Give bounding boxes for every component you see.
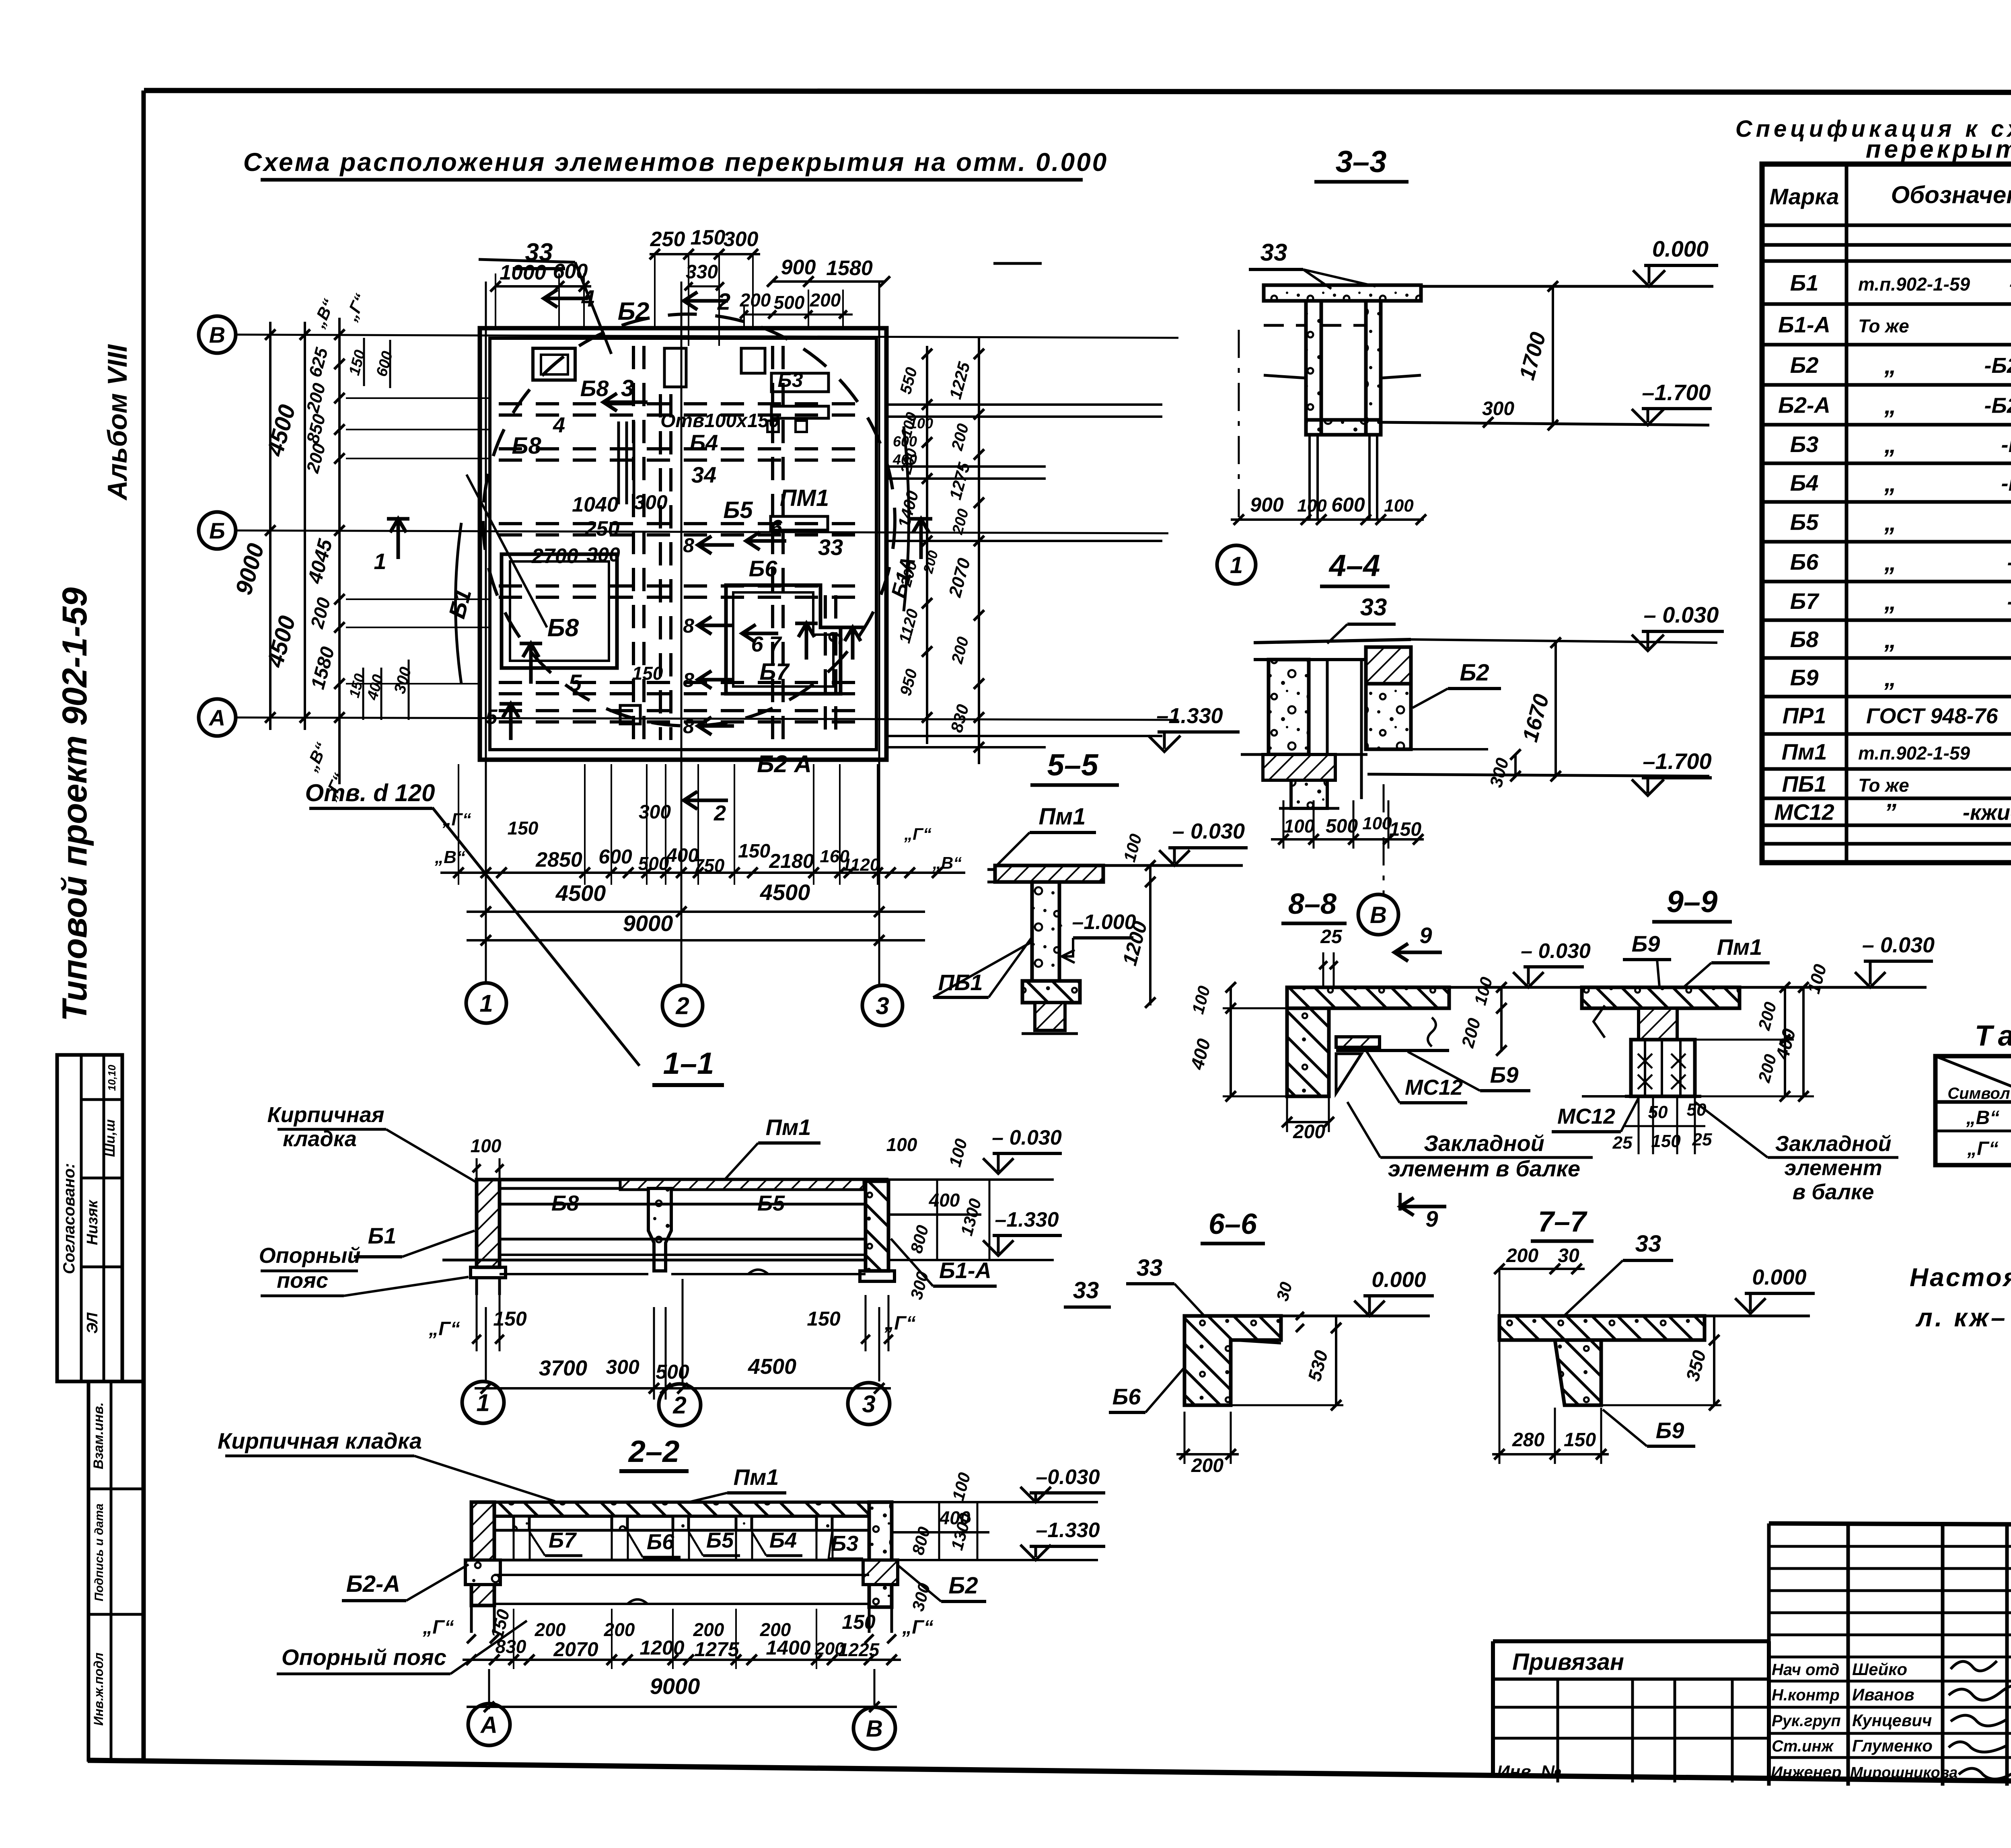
section 2-2 Б2-А callout <box>342 1564 469 1601</box>
section 7-7 label <box>1531 1206 1594 1241</box>
svg-text:Б8: Б8 <box>512 433 541 459</box>
svg-text:„: „ <box>1884 431 1896 458</box>
svg-text:Отв100х150: Отв100х150 <box>660 410 779 432</box>
svg-text:1200: 1200 <box>639 1636 684 1659</box>
section 1-1 Б1-А callout <box>891 1239 997 1286</box>
bottom detail dimension chain <box>440 764 965 885</box>
right side small labels 100 600 400 <box>892 415 941 575</box>
svg-text:Закладной: Закладной <box>1775 1132 1891 1156</box>
section 2-2 Г marks 150 dims <box>422 1607 933 1643</box>
section 7-7 drawing <box>1499 1316 1705 1405</box>
svg-text:50: 50 <box>1648 1102 1668 1122</box>
axis circle В <box>199 316 236 353</box>
svg-text:-Б6,Б7: -Б6,Б7 <box>2007 551 2011 575</box>
section 1-1 Пм1 callout <box>724 1114 820 1180</box>
svg-text:33: 33 <box>1073 1277 1099 1303</box>
section 2-2 9000 chain <box>467 1673 897 1712</box>
svg-text:Кунцевич: Кунцевич <box>1852 1711 1932 1730</box>
svg-text:МС12: МС12 <box>1405 1075 1463 1100</box>
left margin vertical captions <box>56 344 133 1022</box>
section 3-3 "33" callout <box>1249 239 1376 289</box>
svg-text:100: 100 <box>1284 816 1315 837</box>
svg-text:ПБ1: ПБ1 <box>1782 771 1826 797</box>
svg-text:Пм1: Пм1 <box>734 1464 779 1490</box>
svg-text:л. кж– 14 ÷ 16: л. кж– 14 ÷ 16 <box>1915 1303 2011 1332</box>
svg-text:9–9: 9–9 <box>1667 885 1718 919</box>
svg-text:Альбом VIII: Альбом VIII <box>102 344 133 501</box>
svg-text:100: 100 <box>1384 496 1414 516</box>
svg-text:8: 8 <box>683 615 694 637</box>
svg-text:100: 100 <box>471 1135 502 1156</box>
section 8-8 dim 200 bottom <box>1282 1096 1334 1143</box>
section 1-1 Опорный пояс note <box>259 1244 469 1296</box>
svg-text:Б9: Б9 <box>1632 931 1660 956</box>
svg-text:Б2: Б2 <box>948 1573 978 1599</box>
svg-text:Шейко: Шейко <box>1852 1660 1907 1679</box>
svg-text:1–1: 1–1 <box>663 1046 714 1081</box>
section 6-6 33 callout <box>1126 1255 1207 1318</box>
section 2-2 Б2 callout <box>897 1564 986 1601</box>
section 5-5 dims 100 1200 <box>1118 832 1156 1008</box>
section 7-7 dim 350 <box>1601 1316 1721 1410</box>
svg-text:-Б2,Б2-А: -Б2,Б2-А <box>1984 354 2011 378</box>
right dimension column 2 <box>945 338 984 764</box>
svg-text:4500: 4500 <box>760 880 810 905</box>
main plan title <box>243 148 1108 180</box>
svg-text:33: 33 <box>818 534 843 560</box>
svg-text:Б8: Б8 <box>1790 627 1819 652</box>
svg-text:Инженер: Инженер <box>1771 1764 1841 1781</box>
svg-text:– 0.030: – 0.030 <box>1521 939 1591 963</box>
section 8-8 drawing <box>1287 987 1449 1096</box>
section 4-4 dim 300 vertical <box>1486 749 1521 789</box>
svg-text:Б8: Б8 <box>580 376 609 401</box>
section 2-2 Опорный пояс note <box>277 1621 527 1674</box>
svg-text:600: 600 <box>598 845 632 868</box>
svg-text:Пм1: Пм1 <box>766 1114 811 1140</box>
svg-text:Б2: Б2 <box>1460 660 1489 686</box>
bottom 9000 chain <box>467 911 925 946</box>
svg-text:Б: Б <box>209 518 225 543</box>
svg-text:Опорный пояс: Опорный пояс <box>282 1644 446 1670</box>
svg-text:–1.330: –1.330 <box>1156 704 1223 728</box>
svg-text:Взам.инв.: Взам.инв. <box>91 1402 106 1470</box>
section 3-3 drawing <box>1239 285 1421 527</box>
axis circle Б <box>199 512 236 549</box>
svg-text:Б5: Б5 <box>723 497 753 523</box>
svg-text:Б1: Б1 <box>1790 270 1819 296</box>
svg-text:Б6: Б6 <box>1112 1384 1141 1409</box>
section 4-4 level -0.030 <box>1411 602 1724 651</box>
svg-text:400: 400 <box>929 1190 960 1211</box>
svg-text:150: 150 <box>842 1611 876 1633</box>
svg-text:В: В <box>866 1716 883 1742</box>
svg-text:9: 9 <box>1425 1206 1438 1231</box>
svg-text:-Б3, Б4: -Б3, Б4 <box>2001 433 2011 457</box>
right side beam extension lines <box>886 405 1162 747</box>
svg-text:ЭЛ: ЭЛ <box>84 1312 101 1334</box>
svg-text:В: В <box>1370 902 1387 928</box>
ПБ1 callout <box>933 925 1062 997</box>
svg-text:25: 25 <box>1320 926 1343 948</box>
section 6-6 label <box>1201 1208 1265 1244</box>
svg-text:1: 1 <box>476 1390 489 1416</box>
section 9-9 dims right 200 400 <box>1695 982 1814 1102</box>
svg-text:900: 900 <box>781 256 816 279</box>
svg-text:Ши,ш: Ши,ш <box>103 1119 118 1157</box>
svg-text:8: 8 <box>683 534 694 557</box>
svg-text:„Г“: „Г“ <box>1967 1138 1998 1159</box>
svg-text:перекрытия на отм. 0.000: перекрытия на отм. 0.000 <box>1866 136 2011 163</box>
svg-text:200: 200 <box>693 1619 724 1640</box>
size table grid <box>1935 1056 2011 1165</box>
svg-text:Таблица размеров: Таблица размеров <box>1975 1020 2011 1052</box>
svg-text:2: 2 <box>714 801 726 825</box>
svg-text:1040: 1040 <box>572 493 619 516</box>
section 2-2 axis circles А В <box>468 1669 895 1749</box>
svg-text:„Г“: „Г“ <box>422 1617 454 1638</box>
section 8-8 label <box>1281 888 1347 923</box>
svg-text:„: „ <box>1884 352 1896 379</box>
section 6-6 Б6 callout <box>1109 1367 1184 1412</box>
svg-text:1120: 1120 <box>842 855 880 875</box>
svg-text:В: В <box>209 322 225 347</box>
svg-text:8–8: 8–8 <box>1288 888 1337 920</box>
svg-text:400: 400 <box>892 451 917 468</box>
svg-text:Опорный: Опорный <box>259 1244 361 1268</box>
svg-text:Б8: Б8 <box>547 614 579 642</box>
left detail dimension chain <box>302 291 490 803</box>
svg-text:1225: 1225 <box>838 1639 880 1660</box>
section 8-8 МС12 callout <box>1365 1050 1467 1103</box>
svg-text:1275: 1275 <box>694 1638 739 1661</box>
svg-text:5: 5 <box>569 670 582 696</box>
svg-text:6: 6 <box>770 516 783 540</box>
left margin frame boxes (Взам.инв, Подпись и дата, Инв.подл) <box>88 1381 144 1760</box>
svg-text:– 0.030: – 0.030 <box>992 1126 1062 1149</box>
svg-text:Пм1: Пм1 <box>1717 934 1762 960</box>
svg-text:Б8: Б8 <box>551 1191 579 1215</box>
svg-text:150: 150 <box>493 1307 527 1330</box>
svg-text:Кирпичная кладка: Кирпичная кладка <box>218 1428 422 1453</box>
svg-text:Б1-А: Б1-А <box>1778 312 1830 337</box>
svg-text:250: 250 <box>584 517 620 541</box>
svg-text:То же: То же <box>1858 775 1909 796</box>
svg-text:25: 25 <box>1612 1133 1633 1153</box>
section 4-4 Б2 callout <box>1413 660 1501 708</box>
left margin approval block (Согласовано) <box>57 1055 122 1381</box>
svg-text:33: 33 <box>1137 1255 1163 1281</box>
svg-text:Б3: Б3 <box>831 1531 858 1556</box>
section 8-8 dims left <box>1186 982 1287 1102</box>
svg-text:„: „ <box>1884 509 1896 536</box>
svg-text:Инв. №: Инв. № <box>1497 1762 1561 1782</box>
svg-text:„Г“: „Г“ <box>902 1617 933 1638</box>
svg-text:-Б3, Б4: -Б3, Б4 <box>2001 471 2011 495</box>
svg-text:200: 200 <box>1506 1245 1538 1266</box>
section 2-2 label <box>619 1435 689 1471</box>
section 8-8 Б9 callout <box>1408 1052 1530 1091</box>
svg-text:Глуменко: Глуменко <box>1852 1736 1933 1755</box>
section 2-2 bottom dim chain <box>463 1609 901 1669</box>
svg-text:Подпись и дата: Подпись и дата <box>93 1503 106 1601</box>
svg-text:Б7: Б7 <box>549 1528 577 1552</box>
section 8-8 axis circle В <box>1358 894 1398 935</box>
section 1-1 Кирпичная кладка note <box>267 1103 477 1182</box>
svg-text:Инв.ж.подл: Инв.ж.подл <box>91 1653 106 1726</box>
svg-text:–1.700: –1.700 <box>1642 380 1711 405</box>
section 5-5 label <box>1030 748 1119 785</box>
svg-text:„: „ <box>1884 626 1896 653</box>
svg-text:–1.330: –1.330 <box>1036 1519 1100 1542</box>
cut mark 9 lower <box>1400 1193 1446 1231</box>
svg-text:3: 3 <box>621 375 634 401</box>
svg-text:5: 5 <box>486 705 498 729</box>
section 7-7 33 callout <box>1561 1231 1673 1319</box>
svg-text:150: 150 <box>632 663 663 684</box>
section 9-9 level -0.030 <box>1740 933 1935 996</box>
svg-text:300: 300 <box>634 491 668 514</box>
svg-text:4500: 4500 <box>555 880 606 906</box>
section 4-4 "33" callout <box>1327 594 1396 643</box>
section 1-1 axis circles <box>462 1279 890 1426</box>
dimension chains above plan <box>490 226 890 346</box>
section 3-3 dim 300 <box>1482 398 1514 428</box>
section 5-5 level -1.000 <box>1062 911 1136 963</box>
title block grid <box>1769 1523 2011 1787</box>
svg-text:3: 3 <box>876 993 889 1020</box>
svg-text:ПР1: ПР1 <box>1783 703 1826 728</box>
привязан block <box>1493 1641 1769 1782</box>
svg-text:0.000: 0.000 <box>1652 236 1709 261</box>
plan dashed beam lines <box>499 346 869 744</box>
svg-text:280: 280 <box>1512 1429 1544 1451</box>
svg-text:т.п.902-1-59: т.п.902-1-59 <box>1858 274 1970 295</box>
svg-text:Б5: Б5 <box>757 1191 785 1215</box>
specification table header <box>1770 171 2011 226</box>
specification table grid <box>1762 164 2011 863</box>
svg-text:Б4: Б4 <box>690 430 718 455</box>
plan section cut marks <box>374 286 932 740</box>
svg-text:Привязан: Привязан <box>1512 1649 1624 1675</box>
svg-text:Рук.груп: Рук.груп <box>1772 1712 1841 1730</box>
svg-text:„В“: „В“ <box>434 847 465 867</box>
svg-text:1: 1 <box>1230 552 1243 578</box>
section 3-3 label <box>1314 145 1409 182</box>
section 2-2 beam drawing <box>465 1502 898 1633</box>
section 9-9 label <box>1652 885 1732 922</box>
svg-text:-Б2,Б2-А: -Б2,Б2-А <box>1984 394 2011 418</box>
svg-text:200: 200 <box>535 1619 566 1640</box>
svg-text:2–2: 2–2 <box>628 1435 680 1469</box>
section 7-7 level 0.000 <box>1705 1265 1815 1316</box>
section 6-6 drawing <box>1184 1316 1281 1405</box>
svg-text:Кирпичная: Кирпичная <box>267 1103 384 1127</box>
svg-text:3: 3 <box>862 1391 875 1418</box>
section 9-9 Пм1 callout <box>1681 934 1770 989</box>
section 2-2 right dims and levels <box>892 1466 1105 1613</box>
section 6-6 level 0.000 <box>1281 1268 1434 1316</box>
svg-text:4–4: 4–4 <box>1328 549 1380 583</box>
svg-text:Б9: Б9 <box>1790 665 1819 690</box>
svg-text:500: 500 <box>656 1361 689 1383</box>
svg-text:„: „ <box>1884 470 1896 497</box>
svg-text:6–6: 6–6 <box>1209 1208 1257 1240</box>
svg-text:„Г“: „Г“ <box>904 824 931 843</box>
svg-text:0.000: 0.000 <box>1752 1265 1806 1289</box>
svg-text:Согласовано:: Согласовано: <box>60 1163 78 1274</box>
svg-text:200: 200 <box>1293 1121 1325 1143</box>
section 8-8 note закладной элемент <box>1347 1102 1593 1181</box>
svg-text:Б4: Б4 <box>769 1528 797 1552</box>
svg-text:150: 150 <box>807 1307 841 1330</box>
svg-text:Б7: Б7 <box>1790 588 1820 614</box>
section 1-1 labels Б8 Б5 <box>551 1191 785 1215</box>
svg-text:ГОСТ 948-76: ГОСТ 948-76 <box>1866 704 1998 728</box>
svg-text:То же: То же <box>1858 316 1909 337</box>
svg-text:Б9: Б9 <box>1490 1062 1519 1087</box>
bottom 4500+4500 chain <box>467 880 925 917</box>
svg-text:200: 200 <box>1191 1455 1223 1476</box>
svg-text:Б6: Б6 <box>749 556 778 581</box>
svg-text:300: 300 <box>606 1356 639 1378</box>
svg-text:„В“: „В“ <box>1966 1107 2000 1129</box>
section 7-7 top dims 200 30 <box>1494 1245 1585 1464</box>
section 7-7 dims 280 150 <box>1492 1408 1609 1464</box>
section 1-1 33 callout lower <box>1064 1277 1111 1307</box>
section 4-4 label <box>1320 549 1390 586</box>
svg-text:4: 4 <box>553 413 565 437</box>
svg-text:-кжи-Б1: -кжи-Б1 <box>2009 274 2011 295</box>
section 1-1 bottom dim chain <box>475 1307 891 1400</box>
svg-text:„: „ <box>1884 588 1896 615</box>
svg-text:Б4: Б4 <box>1790 470 1819 495</box>
marks Г В bottom-left of plan <box>434 810 471 867</box>
section 3-3 dim 1700 <box>1515 281 1558 430</box>
section 6-6 dim 200 <box>1176 1412 1239 1476</box>
svg-text:”: ” <box>1884 799 1896 826</box>
section 9-9 Б9 callout <box>1623 931 1671 1005</box>
svg-text:„В“: „В“ <box>932 853 962 872</box>
svg-text:А: А <box>208 705 225 730</box>
section 4-4 bottom dims <box>1271 784 1424 894</box>
svg-text:Б2 А: Б2 А <box>757 750 812 777</box>
svg-text:Б7: Б7 <box>759 659 790 685</box>
axis circle А <box>199 699 236 736</box>
plan labels <box>444 238 920 777</box>
svg-text:Н.контр: Н.контр <box>1772 1686 1840 1704</box>
svg-text:34: 34 <box>691 462 716 487</box>
section 9-9 note закладной элемент <box>1695 1102 1898 1204</box>
svg-text:Ст.инж: Ст.инж <box>1772 1737 1834 1755</box>
svg-text:33: 33 <box>1260 239 1287 266</box>
section 5-5 ПБ1 callout leader <box>989 937 1032 997</box>
svg-text:Типовой проект 902-1-59: Типовой проект 902-1-59 <box>56 587 94 1021</box>
section 1-1 label <box>652 1046 724 1085</box>
svg-text:Б1: Б1 <box>368 1223 397 1248</box>
section 1-1 Г marks and 150 dims <box>428 1295 915 1351</box>
svg-text:Пм1: Пм1 <box>1782 739 1827 765</box>
svg-text:150: 150 <box>738 841 770 862</box>
svg-text:3700: 3700 <box>539 1356 587 1380</box>
left dimension chain 9000 <box>230 322 310 730</box>
svg-text:„Г“: „Г“ <box>428 1318 460 1340</box>
svg-text:300: 300 <box>586 543 620 566</box>
svg-text:„: „ <box>1884 549 1896 576</box>
svg-text:500: 500 <box>774 292 805 313</box>
svg-text:830: 830 <box>496 1636 526 1657</box>
svg-text:4500: 4500 <box>748 1355 796 1379</box>
section 1-1 beam drawing <box>442 1180 894 1295</box>
svg-text:Б5: Б5 <box>706 1528 734 1552</box>
svg-text:1400: 1400 <box>766 1636 810 1659</box>
svg-text:2: 2 <box>675 993 689 1020</box>
section 5-5 Пм1 callout <box>997 804 1096 865</box>
svg-text:„Г“: „Г“ <box>442 810 471 829</box>
section 8-8 level -0.030 <box>1449 939 1591 987</box>
svg-text:Обозначение: Обозначение <box>1891 181 2011 208</box>
specification table rows <box>1774 263 2011 826</box>
svg-text:в балке: в балке <box>1793 1180 1874 1204</box>
svg-text:4: 4 <box>581 286 594 312</box>
section 5-5 level -0.030 <box>1103 819 1248 865</box>
svg-text:Б2: Б2 <box>618 298 649 325</box>
size table texts <box>1947 1063 2011 1162</box>
svg-text:250: 250 <box>650 228 685 251</box>
svg-text:100: 100 <box>1297 496 1327 516</box>
svg-text:– 0.030: – 0.030 <box>1862 933 1935 957</box>
section 1-1 Б1 callout <box>354 1223 475 1257</box>
right dimension column 1 <box>894 346 932 744</box>
svg-text:Схема расположения элементов п: Схема расположения элементов перекрытия … <box>243 148 1108 177</box>
svg-text:1580: 1580 <box>826 257 873 280</box>
svg-text:1: 1 <box>374 549 386 574</box>
svg-text:600: 600 <box>893 433 917 450</box>
svg-text:500: 500 <box>638 853 669 874</box>
section 7-7 Б9 callout <box>1603 1410 1695 1446</box>
svg-text:2: 2 <box>672 1392 686 1419</box>
svg-text:-Б6,Б7: -Б6,Б7 <box>2007 590 2011 614</box>
svg-text:Нач отд: Нач отд <box>1772 1661 1839 1679</box>
svg-text:–1.330: –1.330 <box>995 1208 1059 1231</box>
svg-text:Мирошникова: Мирошникова <box>1850 1764 1958 1781</box>
svg-text:1000: 1000 <box>500 261 546 284</box>
svg-text:0.000: 0.000 <box>1372 1268 1426 1292</box>
svg-text:– 0.030: – 0.030 <box>1172 819 1245 843</box>
axis lines horizontal <box>236 335 1178 720</box>
svg-text:25: 25 <box>1692 1130 1712 1149</box>
section 2-2 beam labels <box>529 1528 863 1559</box>
svg-text:Б6: Б6 <box>1790 549 1819 575</box>
svg-text:Закладной: Закладной <box>1424 1131 1544 1156</box>
svg-text:Отв. d 120: Отв. d 120 <box>305 779 435 806</box>
svg-text:10,10: 10,10 <box>106 1065 118 1091</box>
svg-text:600: 600 <box>553 260 588 283</box>
section 3-3 bottom dims <box>1231 493 1426 525</box>
svg-text:200: 200 <box>810 290 841 310</box>
left dimension chain 4500/4500 <box>262 322 300 730</box>
svg-text:30: 30 <box>1558 1245 1579 1266</box>
svg-text:Пм1: Пм1 <box>1039 804 1086 830</box>
plan dashed tank circle <box>483 314 895 726</box>
plan interior openings <box>502 348 841 724</box>
svg-text:Б6: Б6 <box>647 1530 674 1554</box>
svg-text:„: „ <box>1884 664 1896 691</box>
svg-text:150: 150 <box>1564 1429 1596 1451</box>
svg-text:Символ: Символ <box>1947 1085 2010 1102</box>
svg-text:300: 300 <box>724 228 759 251</box>
svg-text:5–5: 5–5 <box>1047 748 1099 782</box>
